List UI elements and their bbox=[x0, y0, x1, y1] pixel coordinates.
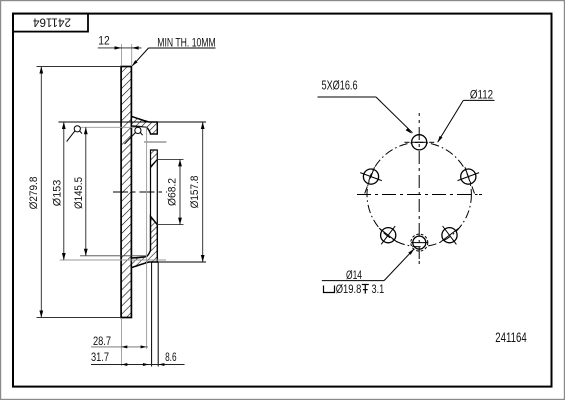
dimension Ø153 bbox=[59, 122, 204, 260]
svg-text:5XØ16.6: 5XØ16.6 bbox=[322, 79, 358, 92]
svg-text:241164: 241164 bbox=[495, 330, 526, 345]
stud hole lower-right bbox=[440, 226, 458, 244]
horizontal centerline bbox=[357, 194, 482, 196]
svg-text:MIN TH. 10MM: MIN TH. 10MM bbox=[157, 36, 215, 49]
svg-text:Ø279.8: Ø279.8 bbox=[28, 176, 40, 209]
flange lower segment + bottom neck bbox=[131, 216, 157, 267]
bore face edge lines through opening bbox=[151, 159, 158, 224]
svg-text:241164: 241164 bbox=[33, 16, 71, 29]
stud hole upper-right bbox=[458, 167, 480, 193]
flange strip between stud hole and bore + bore chamfer bbox=[151, 150, 158, 168]
leader 5XØ16.6 bbox=[318, 97, 413, 134]
depth symbol bbox=[362, 285, 369, 294]
main horizontal centerline bbox=[113, 191, 167, 193]
svg-text:Ø157.8: Ø157.8 bbox=[189, 175, 201, 208]
svg-text:28.7: 28.7 bbox=[93, 335, 111, 348]
part number bottom right bbox=[495, 330, 526, 345]
dimension 8.6 bbox=[158, 363, 184, 366]
leader Ø14 / counterbore note bbox=[322, 249, 415, 281]
vertical centerline bbox=[418, 113, 420, 264]
machining symbol left (circle + check tail) bbox=[67, 126, 82, 142]
retaining screw hole (solid + dashed counterbore) bbox=[411, 234, 428, 251]
svg-text:12: 12 bbox=[98, 35, 109, 48]
svg-text:Ø112: Ø112 bbox=[470, 88, 493, 101]
dimension 28.7 bbox=[91, 345, 148, 348]
svg-text:Ø68.2: Ø68.2 bbox=[167, 178, 179, 206]
dimension 12 (top) bbox=[98, 44, 142, 66]
stud hole top bbox=[405, 135, 435, 150]
dimension Ø68.2 bbox=[157, 159, 183, 224]
dimension Ø279.8 bbox=[37, 67, 122, 318]
svg-text:8.6: 8.6 bbox=[165, 351, 176, 364]
title text 241164 (rotated 180) bbox=[33, 16, 71, 29]
dimension 31.7 bbox=[91, 363, 159, 366]
dimension Ø157.8 bbox=[157, 122, 206, 262]
leader MIN TH. 10MM bbox=[132, 48, 216, 66]
text Ø19.8 bbox=[336, 283, 362, 296]
stud hole lower-left bbox=[379, 226, 397, 244]
stud hole centerline (gray) bbox=[144, 141, 167, 143]
svg-text:Ø19.8: Ø19.8 bbox=[336, 283, 362, 296]
counterbore symbol bbox=[324, 286, 335, 293]
text 3.1 bbox=[372, 283, 385, 296]
stud hole upper-left bbox=[360, 167, 382, 193]
svg-text:Ø14: Ø14 bbox=[346, 269, 362, 282]
disc rotor section (hatched bar) bbox=[121, 67, 131, 318]
machining symbol right (circle + check tail) bbox=[125, 127, 143, 144]
leader Ø112 bbox=[437, 100, 494, 142]
title box bbox=[13, 14, 88, 32]
svg-text:Ø153: Ø153 bbox=[52, 179, 64, 206]
bolt circle Ø112 (dash-dot) bbox=[367, 142, 471, 246]
bottom extension lines bbox=[122, 128, 159, 367]
svg-text:31.7: 31.7 bbox=[91, 351, 109, 364]
dimension Ø145.5 bbox=[80, 127, 147, 256]
hat top neck + flange upper segment bbox=[131, 116, 157, 134]
svg-text:3.1: 3.1 bbox=[372, 283, 385, 296]
svg-text:Ø145.5: Ø145.5 bbox=[73, 177, 85, 209]
